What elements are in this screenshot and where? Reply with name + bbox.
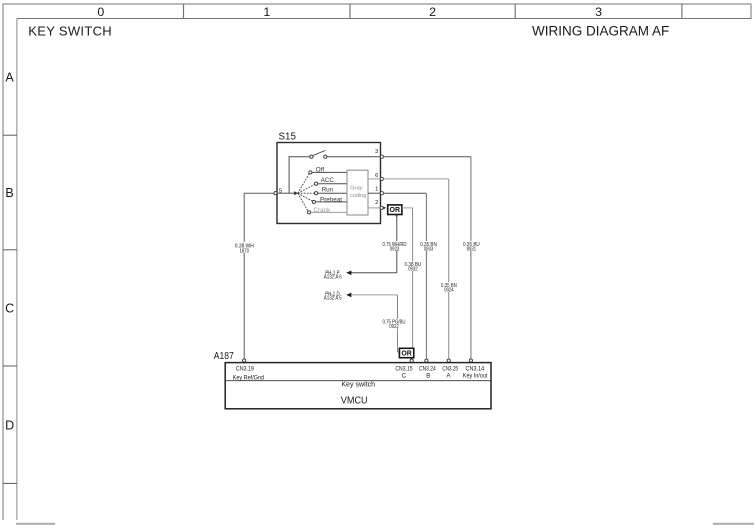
wire label 0.38 WH 1870 (233, 242, 257, 255)
bottom gray bar right (713, 523, 754, 525)
contact circle Run (315, 192, 318, 195)
switch contact circle right (324, 155, 327, 158)
wire OR1 right output (402, 207, 413, 209)
VMCU pin circle CN3.14 (469, 359, 472, 362)
header strip bottom line (17, 18, 752, 20)
VMCU pin circle CN3.19 (243, 359, 246, 362)
pin 5 circle (274, 192, 277, 195)
VMCU internal rule (225, 380, 491, 382)
wire pin 3 vertical to CN3.14 (470, 157, 472, 359)
svg-text:coding: coding (350, 193, 366, 199)
svg-text:C: C (402, 373, 407, 379)
wire OR1 right vertical to OR2 top (412, 208, 414, 348)
svg-text:Crank: Crank (314, 207, 332, 214)
OR gate 2 (399, 348, 413, 357)
svg-text:OR: OR (401, 351, 412, 358)
svg-text:S15: S15 (279, 131, 297, 142)
svg-text:8931: 8931 (467, 246, 477, 252)
wiper arrow (294, 191, 298, 195)
svg-text:1870: 1870 (240, 248, 250, 254)
wire label 0.75 PG/BU 0922 (382, 319, 407, 330)
svg-text:A: A (5, 70, 14, 84)
svg-text:1: 1 (375, 187, 378, 193)
pin 2 arrow (383, 207, 386, 210)
svg-text:CN3.15: CN3.15 (395, 366, 413, 372)
svg-text:Gray: Gray (350, 185, 362, 191)
wire switch common vertical (288, 156, 290, 193)
wire pin 1 vertical to CN3.24 (425, 193, 427, 359)
switch blade (313, 150, 326, 155)
svg-text:A: A (446, 373, 450, 379)
svg-text:0923: 0923 (390, 246, 400, 252)
svg-text:C: C (5, 301, 14, 315)
OR1 bottom output arrow (395, 215, 398, 217)
pin 1 circle (380, 192, 383, 195)
VMCU pin circle CN3.24 (425, 359, 428, 362)
column separator 2/3 (514, 4, 516, 19)
contact circle Off (309, 171, 312, 174)
wire pin 5 external (244, 193, 274, 359)
svg-text:B: B (426, 373, 430, 379)
wire label 0.35 BU 8931 (462, 241, 480, 252)
dashed wiper to Preheat (298, 193, 313, 201)
pin 3 circle (380, 155, 383, 158)
svg-text:2: 2 (375, 200, 378, 206)
wire label 0.38 BU 0932 (404, 261, 422, 272)
wire OR1 bottom vertical (396, 215, 398, 273)
contact circle Crank (308, 211, 311, 214)
svg-text:6: 6 (375, 173, 378, 179)
svg-text:Key switch: Key switch (341, 380, 375, 389)
wire Run to gray coding (318, 192, 347, 194)
wire gray coding to pin 6 (368, 178, 380, 180)
svg-text:KEY SWITCH: KEY SWITCH (28, 23, 112, 38)
VMCU pin circle CN3.25 (447, 359, 450, 362)
OR2 output arrow (410, 358, 413, 361)
svg-text:0933: 0933 (424, 246, 434, 252)
OR gate 1 (388, 205, 402, 215)
wire label 0.75 WH/RD 0923 (382, 241, 408, 252)
dashed wiper to ACC (298, 184, 315, 193)
VMCU control unit box (225, 363, 491, 409)
left strip inner vertical line (16, 19, 18, 521)
wire Preheat to gray coding (316, 201, 348, 203)
wire pin 6 vertical to CN3.25 (448, 179, 450, 359)
pin 6 circle (380, 177, 383, 180)
svg-text:VMCU: VMCU (341, 396, 368, 407)
wire pin 3 horizontal (384, 156, 471, 158)
pin 2 circle (380, 206, 383, 209)
svg-text:0924: 0924 (444, 288, 454, 294)
svg-text:A132:A 6: A132:A 6 (324, 275, 342, 281)
wire label 0.35 BN 0924 (440, 282, 458, 293)
column separator 3/end (681, 4, 683, 19)
svg-text:CN3.25: CN3.25 (442, 366, 458, 372)
wire Off to gray coding (312, 171, 347, 173)
svg-text:2: 2 (429, 5, 436, 19)
svg-text:CN3.19: CN3.19 (236, 366, 255, 372)
svg-text:ACC: ACC (321, 177, 335, 184)
wire from off-page PH-1 D (351, 294, 398, 296)
svg-text:B: B (5, 186, 13, 200)
wire gray coding to pin 2 (368, 207, 380, 209)
wire gray coding to pin 1 (368, 192, 380, 194)
border frame outer top line (3, 3, 752, 5)
wire PH-1 D vertical to OR2 (397, 295, 399, 352)
row separator A/B (3, 134, 17, 136)
svg-text:A132:A 5: A132:A 5 (324, 296, 342, 302)
wire label 0.35 BN 0933 (420, 241, 438, 252)
row separator C/D (3, 365, 17, 367)
svg-text:CN3.24: CN3.24 (419, 366, 436, 372)
svg-text:D: D (5, 418, 14, 432)
svg-text:WIRING DIAGRAM AF: WIRING DIAGRAM AF (532, 23, 669, 38)
contact circle Preheat (312, 200, 315, 203)
border frame outer right segment (750, 4, 752, 19)
bottom gray bar left (16, 523, 55, 525)
svg-text:Key Ref/Gnd: Key Ref/Gnd (233, 375, 264, 381)
svg-text:Key In/out: Key In/out (463, 373, 488, 379)
svg-text:3: 3 (595, 5, 602, 19)
svg-text:1: 1 (263, 5, 270, 19)
key switch S15 box (277, 143, 381, 224)
svg-text:0932: 0932 (408, 267, 418, 273)
wire switch common horizontal (289, 156, 310, 158)
wire contact to pin 3 (327, 156, 380, 158)
dashed wiper to Crank (298, 193, 308, 211)
contact circle ACC (315, 182, 318, 185)
wire pin 1 horizontal (384, 192, 427, 194)
off-page arrow PH-1 D (346, 293, 351, 298)
dashed wiper to Off (298, 174, 309, 194)
column separator 1/2 (349, 4, 351, 19)
switch contact circle left (310, 155, 313, 158)
wire into OR2 left (398, 351, 400, 353)
svg-text:0922: 0922 (389, 324, 399, 330)
border frame outer left line (2, 4, 4, 520)
row separator B/C (3, 249, 17, 251)
row separator D/bottom (3, 482, 17, 484)
wire ACC to gray coding (318, 183, 347, 185)
wire pin5 inside box (277, 192, 289, 194)
wire Crank to gray coding (311, 211, 347, 213)
svg-text:A187: A187 (214, 351, 234, 362)
column separator 0/1 (183, 4, 185, 19)
wire to off-page arrow PH-1 P (351, 272, 397, 274)
VMCU pin circle CN3.15 (410, 359, 413, 362)
dashed wiper to Run (298, 192, 315, 194)
svg-text:Run: Run (322, 186, 334, 193)
gray coding box (347, 170, 368, 215)
svg-text:OR: OR (390, 207, 401, 214)
svg-text:0: 0 (97, 5, 104, 19)
svg-text:CN3.14: CN3.14 (466, 366, 485, 372)
wire pin 6 horizontal (384, 178, 449, 180)
svg-text:3: 3 (375, 149, 378, 155)
wire common to wiper pivot (289, 192, 295, 194)
off-page arrow PH-1 P (346, 271, 351, 276)
